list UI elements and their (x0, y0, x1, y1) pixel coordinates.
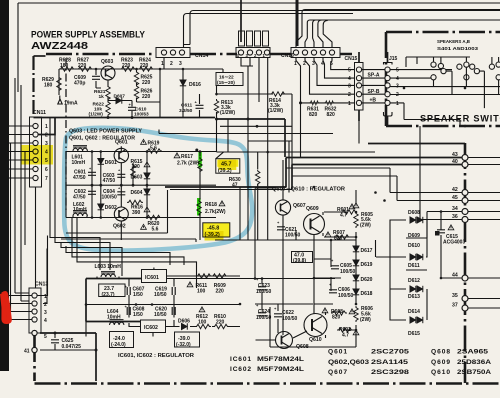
svg-text:220: 220 (142, 80, 151, 86)
svg-text:Q601: Q601 (328, 349, 347, 356)
svg-text:M5F78M24L: M5F78M24L (257, 356, 304, 363)
svg-text:25D836A: 25D836A (457, 359, 491, 366)
svg-text:Q602,Q603: Q602,Q603 (328, 359, 369, 366)
svg-text:CN16: CN16 (281, 53, 294, 59)
svg-text:10mH: 10mH (72, 160, 86, 166)
svg-text:Q610: Q610 (309, 337, 322, 343)
svg-text:34: 34 (452, 206, 458, 212)
svg-text:-45.8: -45.8 (207, 225, 219, 231)
svg-text:820: 820 (327, 112, 336, 118)
svg-text:180: 180 (44, 83, 53, 89)
svg-text:CN15: CN15 (345, 56, 358, 62)
svg-text:(-24.0): (-24.0) (111, 342, 126, 348)
svg-text:CN11: CN11 (33, 110, 46, 116)
svg-text:D615: D615 (408, 331, 420, 337)
svg-text:D616: D616 (189, 82, 201, 88)
svg-text:36: 36 (452, 214, 458, 220)
svg-text:AWZ2448: AWZ2448 (31, 40, 88, 52)
svg-text:100: 100 (197, 289, 206, 295)
svg-text:220: 220 (78, 63, 87, 69)
svg-text:1: 1 (396, 101, 399, 107)
svg-text:(23.7): (23.7) (102, 292, 115, 298)
svg-text:D610: D610 (408, 243, 420, 249)
svg-text:D612: D612 (408, 278, 420, 284)
svg-text:Q602: Q602 (113, 224, 126, 230)
svg-text:L603 10mH: L603 10mH (95, 264, 122, 270)
svg-text:47/50: 47/50 (73, 195, 86, 201)
svg-text:100/50: 100/50 (340, 269, 356, 275)
svg-text:37: 37 (452, 303, 458, 309)
svg-text:7: 7 (45, 176, 48, 182)
svg-text:IC601, IC602 : REGULATOR: IC601, IC602 : REGULATOR (118, 353, 194, 359)
svg-text:2SA1145: 2SA1145 (371, 359, 408, 366)
svg-text:(1/2W): (1/2W) (220, 110, 235, 116)
svg-text:0.047/25: 0.047/25 (62, 344, 82, 350)
svg-text:D601: D601 (105, 160, 117, 166)
svg-text:3: 3 (179, 61, 182, 67)
svg-text:100/50: 100/50 (256, 289, 272, 295)
svg-text:J15: J15 (389, 56, 398, 62)
svg-text:Q608: Q608 (431, 349, 450, 356)
svg-text:180: 180 (60, 63, 69, 69)
svg-text:(1/2W): (1/2W) (268, 108, 283, 114)
svg-text:SP-B: SP-B (368, 89, 380, 95)
svg-text:2SA965: 2SA965 (457, 349, 488, 356)
svg-text:2: 2 (170, 61, 173, 67)
svg-text:220: 220 (142, 94, 151, 100)
svg-text:390: 390 (132, 164, 141, 170)
svg-text:2.7k(2W): 2.7k(2W) (205, 209, 226, 215)
svg-text:(2W): (2W) (360, 223, 371, 229)
svg-text:R617: R617 (181, 154, 193, 160)
svg-text:Q610: Q610 (431, 369, 450, 376)
svg-text:2SC3298: 2SC3298 (371, 369, 409, 376)
svg-text:47/50: 47/50 (103, 178, 116, 184)
svg-text:D617: D617 (361, 248, 373, 254)
svg-text:100/50: 100/50 (285, 233, 301, 239)
svg-text:IC601: IC601 (145, 275, 159, 281)
svg-text:2.7k (2W): 2.7k (2W) (177, 161, 199, 167)
svg-text:1/50: 1/50 (133, 312, 143, 318)
svg-text:820: 820 (334, 236, 343, 242)
svg-text:47/50: 47/50 (73, 175, 86, 181)
svg-text:S401 A5D1003: S401 A5D1003 (437, 46, 479, 51)
svg-text:D611: D611 (408, 263, 420, 269)
svg-text:POWER SUPPLY ASSEMBLY: POWER SUPPLY ASSEMBLY (31, 30, 146, 41)
svg-text:D608: D608 (408, 210, 420, 216)
svg-text:41: 41 (24, 349, 30, 355)
svg-text:Q609: Q609 (431, 359, 450, 366)
svg-text:4: 4 (348, 76, 351, 82)
svg-text:4: 4 (44, 318, 47, 324)
svg-text:2: 2 (348, 92, 351, 98)
svg-text:16∼22: 16∼22 (219, 75, 234, 81)
svg-text:4: 4 (396, 76, 399, 82)
svg-text:(15∼20): (15∼20) (217, 80, 235, 86)
svg-text:(1/2W): (1/2W) (89, 112, 104, 118)
svg-text:6: 6 (45, 167, 48, 173)
svg-text:1/50: 1/50 (133, 292, 143, 298)
svg-text:820: 820 (332, 315, 341, 321)
svg-text:4.7: 4.7 (340, 213, 347, 219)
svg-text:R618: R618 (205, 202, 217, 208)
svg-text:D618: D618 (361, 291, 373, 297)
svg-text:44: 44 (452, 273, 458, 279)
svg-text:D604: D604 (131, 190, 143, 196)
svg-text:45: 45 (452, 195, 458, 201)
svg-text:2: 2 (45, 133, 48, 139)
svg-text:470p: 470p (74, 81, 85, 87)
svg-text:100/50: 100/50 (102, 195, 118, 201)
svg-text:D614: D614 (408, 309, 420, 315)
svg-text:10/50: 10/50 (154, 312, 167, 318)
svg-text:2SB750A: 2SB750A (457, 369, 491, 376)
svg-text:Q607: Q607 (293, 203, 306, 209)
svg-text:43: 43 (452, 152, 458, 158)
svg-text:CN14: CN14 (195, 53, 208, 59)
svg-text:3.3/50: 3.3/50 (179, 108, 193, 114)
svg-text:IC601: IC601 (230, 356, 251, 363)
svg-text:100: 100 (198, 320, 207, 326)
svg-text:(2W): (2W) (360, 317, 371, 323)
svg-text:1: 1 (45, 124, 48, 130)
svg-text:3: 3 (44, 310, 47, 316)
svg-text:220: 220 (140, 63, 149, 69)
svg-text:SP-A: SP-A (368, 73, 380, 79)
svg-text:C611: C611 (181, 103, 193, 109)
svg-text:M5F79M24L: M5F79M24L (257, 366, 304, 373)
svg-text:IC602: IC602 (144, 325, 158, 331)
svg-text:D620: D620 (361, 277, 373, 283)
svg-text:D603: D603 (131, 175, 143, 181)
svg-text:(39.8): (39.8) (293, 258, 306, 264)
svg-text:IC602: IC602 (230, 366, 251, 373)
svg-text:4.7: 4.7 (342, 333, 349, 339)
svg-text:5.6: 5.6 (150, 146, 157, 152)
svg-text:ACG4003: ACG4003 (443, 240, 465, 246)
svg-text:220: 220 (216, 289, 225, 295)
svg-text:CN13: CN13 (35, 282, 48, 288)
svg-text:D606: D606 (178, 319, 190, 325)
svg-text:1: 1 (348, 101, 351, 107)
svg-text:5: 5 (396, 68, 399, 74)
svg-text:390: 390 (132, 210, 141, 216)
svg-text:3: 3 (348, 84, 351, 90)
svg-text:5: 5 (348, 68, 351, 74)
svg-text:SPEAKERS A,B: SPEAKERS A,B (437, 39, 471, 44)
svg-text:+B: +B (370, 98, 377, 104)
svg-text:Q603: Q603 (101, 59, 113, 65)
svg-text:2SC2705: 2SC2705 (371, 349, 409, 356)
svg-text:5.6: 5.6 (152, 227, 159, 233)
svg-text:5: 5 (44, 334, 47, 340)
svg-text:42: 42 (452, 187, 458, 193)
svg-text:D619: D619 (361, 262, 373, 268)
svg-text:Q609: Q609 (306, 206, 319, 212)
svg-text:220: 220 (216, 320, 225, 326)
svg-text:35: 35 (452, 293, 458, 299)
svg-text:1k: 1k (99, 94, 105, 100)
svg-text:Q601: Q601 (115, 140, 128, 146)
svg-text:820: 820 (309, 112, 318, 118)
svg-text:(-32.0): (-32.0) (176, 342, 191, 348)
svg-text:220: 220 (122, 63, 131, 69)
svg-text:Q607: Q607 (328, 369, 347, 376)
svg-text:100/50: 100/50 (256, 315, 272, 321)
svg-text:D607: D607 (114, 94, 126, 100)
svg-text:100/63: 100/63 (134, 112, 149, 118)
svg-text:40: 40 (452, 159, 458, 165)
svg-text:D613: D613 (408, 294, 420, 300)
svg-text:100/50: 100/50 (282, 316, 298, 322)
svg-text:10/50: 10/50 (154, 292, 167, 298)
svg-text:100/50: 100/50 (338, 293, 354, 299)
